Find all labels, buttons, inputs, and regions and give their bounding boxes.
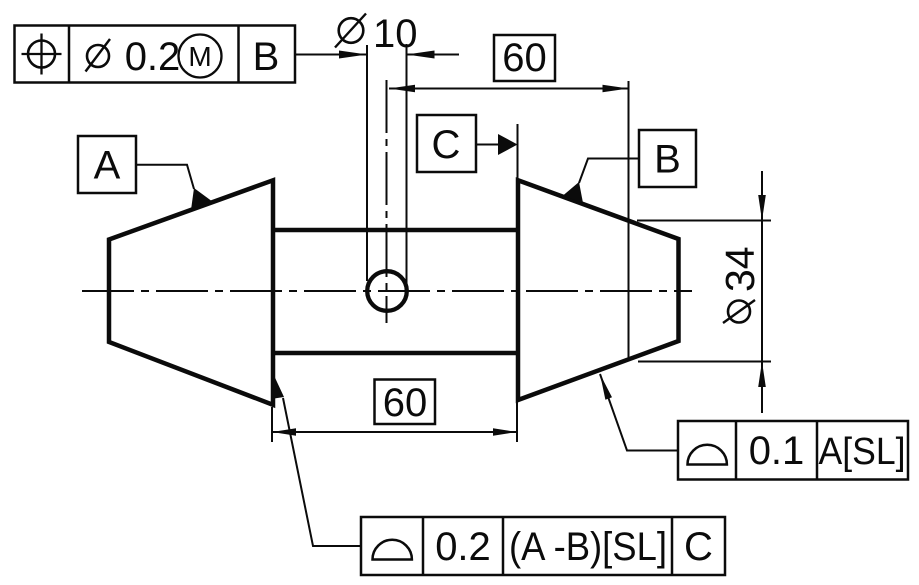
svg-text:C: C [684, 525, 713, 569]
top 60 dimension: right extension line [628, 81, 630, 361]
datum label A box [78, 136, 136, 193]
modifier M circle [179, 35, 222, 78]
FCF profile 0.1 frame [678, 421, 908, 480]
dia 34 dimension line [761, 171, 763, 413]
top 60 box [494, 35, 555, 81]
dia 10 extension line right [406, 44, 408, 289]
bottom 60 box [375, 380, 436, 425]
svg-text:34: 34 [717, 246, 763, 292]
svg-text:60: 60 [383, 381, 428, 425]
datum C leader [476, 144, 499, 146]
svg-text:B: B [654, 138, 681, 182]
datum C extension line above cone corner [517, 124, 519, 182]
leader from FCF to hole dimension + left dim line [295, 54, 367, 56]
svg-text:0.2: 0.2 [125, 35, 181, 79]
svg-text:M: M [188, 41, 211, 72]
datum B leader [579, 159, 639, 184]
part outline: cylinder bottom edge [272, 351, 519, 356]
FCF profile 0.2 (A-B)[SL] C: datum triangle at cylinder corner [271, 375, 284, 400]
part outline: right cone [518, 180, 679, 400]
vertical centerline of hole [386, 80, 388, 323]
datum label C box [417, 115, 476, 172]
diameter symbol in FCF [86, 39, 111, 72]
datum B triangle [563, 182, 583, 203]
svg-text:C: C [432, 123, 461, 167]
top 60 dimension line [389, 88, 629, 90]
svg-text:0.1: 0.1 [749, 429, 805, 473]
datum label B box [639, 130, 696, 187]
FCF profile 0.1 A[SL]: leader [600, 374, 678, 451]
svg-text:B: B [253, 35, 280, 79]
part outline: cylinder top edge [272, 228, 519, 233]
dia 34 dimension: top extension line [637, 220, 771, 222]
FCF profile 0.2 frame [361, 517, 725, 575]
svg-text:A: A [94, 144, 121, 188]
svg-text:(A -B)[SL]: (A -B)[SL] [509, 525, 667, 569]
profile of a line symbol [373, 540, 412, 560]
datum A triangle [191, 188, 213, 210]
position symbol [22, 34, 62, 75]
FCF position: frame [15, 26, 296, 83]
part outline: left cone [109, 180, 273, 404]
dia 34 dimension: bottom extension line [638, 361, 771, 363]
bottom 60 dimension: right extension line [516, 402, 518, 442]
svg-text:60: 60 [502, 36, 547, 80]
datum C triangle [498, 134, 518, 155]
dia symbol of Ø10 text [335, 14, 366, 48]
dia 10 extension line left [366, 45, 368, 281]
horizontal centerline [82, 290, 692, 292]
hole circle [367, 271, 407, 311]
bottom 60 dimension: left extension line [271, 407, 273, 442]
FCF 0.2 leader [283, 398, 361, 546]
datum A leader [136, 165, 194, 189]
profile of a line symbol [688, 445, 727, 465]
svg-text:0.2: 0.2 [435, 525, 491, 569]
svg-text:10: 10 [373, 12, 418, 56]
svg-text:A[SL]: A[SL] [819, 431, 906, 473]
bottom 60 dimension line [272, 431, 517, 433]
dia symbol of Ø34 text (rotated) [723, 300, 755, 323]
dia 10 dimension right line [407, 54, 460, 56]
